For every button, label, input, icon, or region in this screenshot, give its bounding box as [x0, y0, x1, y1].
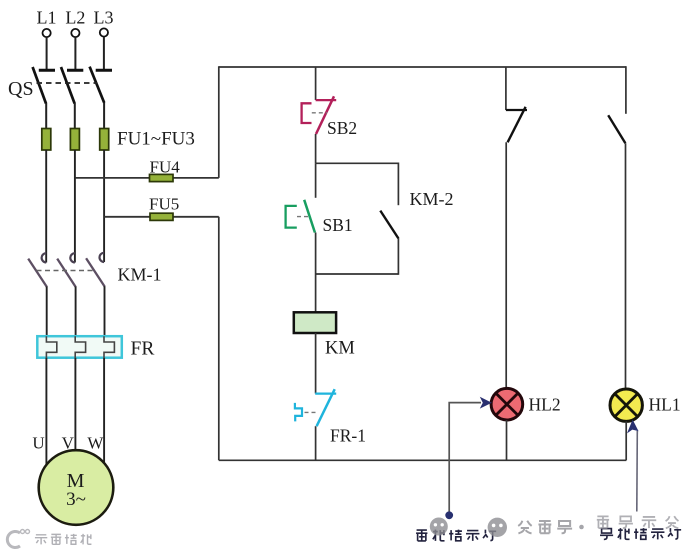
wire L3 fuse to KM-1: [103, 150, 105, 262]
KM-1 linkage dashed: [37, 270, 96, 272]
note text 运行指示灯: [600, 528, 681, 539]
fuse FU4 with feeder wire: [75, 174, 218, 181]
svg-text:W: W: [87, 434, 104, 453]
label FU1~FU3: [117, 129, 195, 150]
wire junction to KM-2 top: [316, 162, 399, 164]
contactor KM-1 pole 3: [86, 253, 105, 287]
wire QS3 to FU3: [103, 103, 105, 130]
wire KM coil to FR-1: [315, 333, 317, 394]
wire QS2 to FU2: [74, 103, 76, 129]
contact FR-1 (NC thermal): [295, 389, 336, 426]
wire QS1 to FU1: [45, 103, 47, 129]
wire FR to motor U: [45, 358, 47, 465]
label V: [62, 434, 75, 453]
label FU4: [150, 158, 181, 177]
label KM-1: [118, 265, 162, 285]
svg-text:L3: L3: [94, 8, 114, 28]
svg-text:SB2: SB2: [327, 118, 357, 138]
FR heater element 1: [46, 336, 56, 358]
wire junction to SB1: [315, 163, 317, 198]
label L2: [65, 8, 85, 28]
lamp HL1 (run indicator): [610, 389, 642, 421]
pushbutton SB2 (NC stop): [302, 96, 337, 134]
label KM: [325, 339, 355, 359]
watermark text 公众号: [518, 521, 572, 534]
wire KM NC aux to HL2: [505, 142, 507, 388]
contact KM-2 (NO self-holding): [380, 163, 398, 275]
svg-text:QS: QS: [8, 78, 34, 100]
watermark ghost icon 1: [430, 518, 448, 536]
wire L1 terminal to QS: [46, 37, 48, 69]
coil KM: [294, 312, 336, 333]
watermark middle dot: [579, 525, 584, 530]
label L3: [94, 8, 114, 28]
label HL1: [649, 395, 681, 415]
label W: [87, 434, 104, 453]
svg-text:KM-1: KM-1: [118, 265, 162, 285]
svg-text:L1: L1: [37, 8, 57, 28]
label U: [32, 434, 44, 453]
wire top rail to KM NO aux: [625, 66, 627, 114]
wire KM-1 pole2 to FR: [75, 287, 77, 337]
wire HL1 to bottom rail: [625, 421, 627, 460]
fuse FU5 with feeder wire: [104, 213, 219, 220]
note text 停机指示灯: [416, 530, 496, 541]
lamp HL2 (stop indicator): [491, 388, 523, 420]
svg-text:3~: 3~: [66, 489, 86, 510]
label FR: [131, 339, 155, 360]
control left wire lower (FU5 to bottom rail): [218, 217, 220, 460]
wire L3 terminal to QS: [103, 37, 105, 69]
FR heater element 3: [104, 336, 114, 358]
svg-text:KM: KM: [325, 339, 355, 359]
wire L1 fuse to KM-1: [45, 150, 47, 263]
svg-text:U: U: [32, 434, 44, 453]
svg-text:FU4: FU4: [150, 158, 181, 177]
wire HL2 to bottom rail: [506, 420, 508, 460]
wire SB2 to junction: [315, 134, 317, 163]
svg-text:HL2: HL2: [529, 395, 561, 415]
callout dot (stop lamp note): [445, 511, 453, 519]
wire L2 fuse to KM-1: [74, 150, 76, 263]
watermark text over run lamp note: [597, 516, 679, 528]
svg-text:FR: FR: [131, 339, 155, 360]
QS linkage dashed: [37, 82, 98, 84]
svg-text:HL1: HL1: [649, 395, 681, 415]
control top rail wire: [219, 66, 626, 68]
watermark ghost icon 2: [488, 518, 507, 537]
svg-text:FU1~FU3: FU1~FU3: [117, 129, 195, 150]
label KM-2: [410, 189, 454, 209]
wire L2 terminal to QS: [74, 37, 76, 69]
label L1: [37, 8, 57, 28]
label FU5: [149, 195, 179, 214]
callout arrow to HL2: [449, 397, 492, 514]
label SB2: [327, 118, 357, 138]
svg-text:FU5: FU5: [149, 195, 179, 214]
contact KM NO aux (run lamp branch): [608, 115, 625, 143]
control left wire upper (FU4 to top rail): [218, 66, 220, 178]
FR heater element 2: [75, 336, 85, 358]
label QS: [8, 78, 34, 100]
svg-text:KM-2: KM-2: [410, 189, 454, 209]
switch QS pole 1: [33, 67, 55, 104]
wire top rail to SB2: [315, 67, 317, 100]
fuse FU2: [70, 129, 79, 151]
terminal L2: [71, 29, 79, 37]
control bottom rail wire: [219, 459, 627, 461]
wire FR-1 to bottom rail: [315, 426, 317, 460]
wire KM-1 pole1 to FR: [46, 287, 48, 337]
thermal relay FR box: [37, 336, 122, 358]
contactor KM-1 pole 1: [28, 253, 47, 287]
wire FR to motor W: [103, 358, 105, 463]
svg-text:FR-1: FR-1: [330, 426, 366, 446]
wire FR to motor V: [74, 358, 76, 451]
contact KM NC aux (stop lamp branch): [506, 107, 527, 143]
callout arrow to HL1: [627, 420, 639, 512]
motor M: [39, 450, 114, 525]
wire SB1 to junction2: [315, 233, 317, 275]
svg-text:SB1: SB1: [323, 215, 353, 235]
switch QS pole 2: [61, 67, 83, 104]
terminal L3: [100, 28, 108, 36]
wire junction2 to KM-2 bottom: [316, 273, 399, 275]
label HL2: [529, 395, 561, 415]
wire junction2 to KM coil: [315, 274, 317, 312]
wire KM-1 pole3 to FR: [104, 286, 106, 336]
svg-text:L2: L2: [65, 8, 85, 28]
pushbutton SB1 (NO start): [286, 200, 315, 233]
label FR-1: [330, 426, 366, 446]
wire top rail to KM NC aux: [505, 67, 507, 110]
terminal L1: [43, 29, 51, 37]
wire KM NO aux to HL1: [625, 143, 627, 389]
label SB1: [323, 215, 353, 235]
fuse FU1: [42, 129, 51, 151]
watermark logo bottom-left: [7, 530, 29, 548]
fuse FU3: [100, 129, 109, 151]
contactor KM-1 pole 2: [57, 253, 75, 287]
watermark text 大数跨境: [35, 534, 91, 544]
switch QS pole 3: [90, 67, 112, 103]
